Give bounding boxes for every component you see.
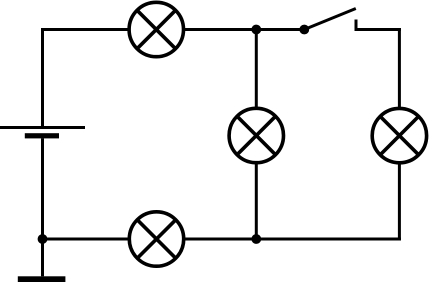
node bottom-middle junction [251,234,261,244]
wire lamp to top junction [184,28,257,31]
node top junction [251,25,261,35]
wire battery to bottom junction [41,138,44,239]
wire top-left horizontal [41,28,130,31]
wire switch to top-right corner [355,28,401,31]
wire right vertical upper [398,28,401,109]
lamp right [372,108,426,162]
lamp bottom [129,212,183,266]
wire bottom-left horizontal [43,238,130,241]
wire right vertical lower [398,163,401,241]
switch (open) [299,9,356,35]
ground [18,276,66,282]
lamp middle [229,108,283,162]
node bottom-left junction [38,234,48,244]
wire middle vertical lower [255,163,258,239]
wire ground stub [41,239,44,276]
wire top junction to switch pivot [256,28,304,31]
wire middle vertical upper [255,30,258,109]
wire left vertical [41,28,44,128]
wire bottom lamp to bottom junction [184,238,257,241]
lamp top-left [129,2,183,56]
wire bottom-right horizontal [256,238,401,241]
battery [0,128,85,139]
